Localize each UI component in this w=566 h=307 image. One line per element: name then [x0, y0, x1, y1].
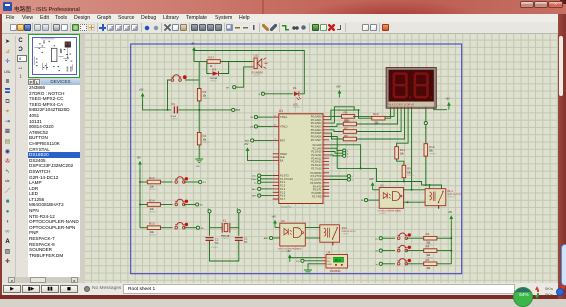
terminal P1.1	[251, 177, 261, 181]
LED D1	[293, 86, 301, 109]
resistor R7	[343, 126, 356, 133]
svg-text:R6: R6	[344, 134, 348, 138]
junction bus row2	[450, 250, 452, 252]
opto-coupler U2	[378, 183, 404, 215]
wire P1.0 terminal	[261, 175, 273, 177]
wire button right to R2 column	[185, 79, 199, 81]
wire R14 to button	[161, 204, 173, 206]
power +5V at switch bus left	[137, 157, 142, 169]
svg-text:R17: R17	[209, 55, 215, 59]
svg-text:LS1: LS1	[254, 54, 260, 58]
resistor R1	[197, 133, 210, 145]
svg-text:G2R-14-DC12: G2R-14-DC12	[447, 194, 462, 196]
button SW7	[397, 259, 411, 266]
svg-text:+5V: +5V	[369, 178, 374, 181]
svg-text:R14: R14	[149, 198, 155, 202]
terminal P1.4	[252, 187, 261, 191]
resistor R6	[343, 134, 356, 141]
junction bus R14	[139, 204, 141, 206]
svg-text:85.0: 85.0	[335, 258, 342, 262]
svg-text:P2.7/A15: P2.7/A15	[311, 167, 322, 170]
wire display common pin to +5V	[434, 108, 447, 110]
power +5V floating near U1 top	[336, 86, 341, 98]
terminal XTAL2	[250, 125, 257, 129]
resistor R3	[424, 232, 437, 247]
junction U2 lower	[407, 201, 409, 203]
wire bus to R14	[140, 204, 147, 206]
svg-text:AT89C52: AT89C52	[281, 205, 292, 209]
U1 left pin ALE pin 30	[273, 156, 285, 159]
svg-text:R15: R15	[149, 222, 155, 226]
svg-text:C9: C9	[171, 102, 175, 106]
power +5V at U2	[369, 178, 375, 190]
terminal key row2	[376, 249, 383, 253]
resistor R14	[147, 198, 160, 213]
wire U3 out bottom to RL2	[305, 237, 320, 239]
svg-text:DQ: DQ	[296, 261, 300, 263]
svg-text:+5V: +5V	[272, 216, 277, 219]
resistor R8	[342, 110, 355, 122]
svg-text:G2R-14-DC12: G2R-14-DC12	[342, 231, 357, 233]
wire R6 right to display pin e	[357, 108, 405, 139]
wire button to R3	[406, 237, 424, 239]
resistor R15	[147, 222, 160, 237]
svg-text:U3: U3	[281, 219, 285, 223]
wire R13 to button	[161, 181, 173, 183]
wire snake across to relay RL1	[337, 168, 421, 185]
junction RL1 rail	[428, 184, 430, 186]
wire crystal right column	[238, 213, 240, 236]
capacitor C2	[206, 238, 220, 249]
svg-text:P0.7/AD7: P0.7/AD7	[311, 139, 322, 142]
button SW4	[175, 223, 188, 230]
svg-text:DS18B20: DS18B20	[330, 270, 341, 273]
wire U1 P2.0 down column	[329, 145, 361, 169]
wire U1 P0.0 to R8	[329, 115, 343, 117]
U1 left pin XTAL2 pin 18	[273, 125, 288, 129]
wire U1 P0.6 down column	[329, 137, 337, 169]
wire caps bottom U link	[210, 241, 239, 261]
relay RL1 bottom pin stub	[438, 206, 440, 209]
wire R17 row down through to R2 top	[198, 62, 200, 89]
terminal node speaker return	[226, 86, 236, 90]
svg-text:10ms: 10ms	[251, 179, 257, 181]
button SW5	[397, 233, 411, 240]
ground at DS18B20	[304, 267, 312, 274]
wire P1.6 terminal	[261, 195, 273, 197]
terminal R15 out	[196, 226, 204, 230]
power +5V at U3	[272, 216, 277, 228]
U1 left pin RST pin 9	[273, 139, 286, 143]
wire row2 terminal to button	[382, 250, 395, 252]
wire R15 to button	[161, 227, 173, 229]
junction bus row1	[450, 237, 452, 239]
wire U4 GND to ground	[308, 264, 322, 267]
wire P1.4 terminal	[261, 188, 273, 190]
svg-text:R16: R16	[344, 119, 350, 123]
svg-text:<TEXT>: <TEXT>	[222, 237, 230, 240]
junction loops	[358, 109, 360, 111]
wire U1 P0.4 to R7	[329, 130, 343, 132]
U1 right pins P2.0-P2.7 pins 21-28	[311, 144, 329, 171]
svg-text:R7: R7	[344, 126, 348, 130]
svg-text:<TEXT>: <TEXT>	[171, 118, 179, 121]
svg-text:+5V: +5V	[139, 89, 144, 92]
wire button left down to RST row	[168, 80, 172, 110]
terminal P1.2	[254, 181, 261, 185]
wire C9 right to RST terminal	[178, 109, 231, 111]
U1 right pins P3.0-P3.7 pins 10-17	[310, 172, 329, 198]
svg-text:C1: C1	[244, 236, 248, 240]
wire AUD to U3	[273, 237, 280, 239]
svg-text:R4: R4	[426, 245, 430, 249]
sheet border	[131, 44, 462, 274]
terminal node c	[343, 154, 349, 158]
resistor R10	[372, 112, 385, 124]
svg-text:U2: U2	[380, 183, 384, 187]
button SW3	[175, 199, 188, 206]
svg-text:X1: X1	[223, 219, 227, 223]
U1 left pins P1.0-P1.7 pins 1-8	[273, 175, 294, 201]
terminal key row3	[376, 262, 383, 266]
svg-text:<TEXT>: <TEXT>	[149, 188, 157, 191]
svg-text:U1: U1	[279, 109, 283, 113]
junction bus R13	[139, 181, 141, 183]
svg-text:VCC: VCC	[327, 258, 332, 260]
svg-text:<TEXT>: <TEXT>	[331, 272, 339, 275]
resistor R5	[424, 258, 437, 270]
terminal key row1	[376, 237, 383, 241]
wire left switch bus	[139, 169, 141, 228]
relay RL2	[320, 225, 357, 242]
wire button to terminal R13	[184, 181, 199, 183]
svg-text:GND: GND	[196, 166, 201, 168]
svg-text:R11: R11	[400, 148, 406, 152]
svg-text:19: 19	[274, 115, 276, 117]
wire R17 row from +5V	[194, 61, 207, 63]
wire terminal to LED D1	[265, 93, 293, 95]
power +5V display common	[445, 98, 450, 110]
wire button to R4	[406, 250, 424, 252]
terminal P1.0	[252, 174, 261, 178]
wire R10 right to display pin a	[385, 108, 391, 118]
svg-text:<TEXT>: <TEXT>	[407, 174, 415, 177]
svg-text:<TEXT>: <TEXT>	[253, 74, 261, 77]
resistor R11	[395, 147, 406, 159]
wire U2 input	[368, 199, 380, 201]
svg-text:GND: GND	[327, 264, 332, 266]
wire +5V down to RST row	[143, 101, 172, 110]
junction U2 out / display g	[411, 189, 413, 191]
resistor R12	[424, 144, 437, 156]
sounder LS1	[252, 54, 268, 78]
svg-text:U4: U4	[327, 250, 331, 254]
svg-text:B A C D E F G DP +5: B A C D E F G DP +5	[389, 103, 414, 107]
resistor R4	[424, 245, 437, 260]
opto-coupler U3	[278, 219, 306, 253]
wire P1.1 terminal	[261, 178, 273, 180]
wire R1 bottom to ground	[198, 145, 200, 156]
wire U1 P3.1 to terminal	[329, 175, 347, 177]
terminal node t1	[347, 175, 352, 179]
resistor R17	[207, 55, 220, 68]
svg-text:AUD: AUD	[264, 237, 269, 240]
terminal node 2 below display	[424, 122, 427, 130]
svg-text:P1.7: P1.7	[280, 198, 286, 201]
power +5V at C9 branch	[139, 89, 145, 101]
svg-text:R9: R9	[407, 167, 411, 171]
junction snake columns	[360, 167, 362, 169]
svg-text:+5V: +5V	[336, 86, 341, 89]
U1 left pin PSEN pin 29	[273, 153, 287, 156]
wire U3 anode feed	[275, 227, 280, 229]
wire R7 right to display pin d	[357, 108, 402, 131]
wire crystal right pin	[230, 227, 239, 229]
wire crystal left pin	[210, 227, 223, 229]
wire terminal 2 to R12	[425, 125, 427, 144]
wire top loop to LED D1	[194, 51, 304, 94]
junction R9 snake	[403, 181, 405, 183]
wire crystal left column	[209, 213, 211, 236]
wire right switch bus	[450, 223, 452, 264]
7-segment display LED1	[386, 68, 436, 109]
wire +5V to U4 VCC	[290, 257, 322, 259]
wire D4 right up to R17 right, on to speaker	[220, 62, 252, 74]
wire U1 P0.5 to R6	[329, 133, 343, 139]
U1 left pin EA pin 31	[273, 160, 284, 163]
wire R4 to bus	[437, 250, 451, 252]
wire bus to R15	[140, 227, 147, 229]
svg-text:R10: R10	[373, 112, 379, 116]
wire R11 bottom to R9 top	[397, 159, 404, 166]
wire R9 bottom to snake net	[403, 178, 405, 182]
wire row3 terminal to button	[382, 263, 395, 265]
terminal node t2	[347, 178, 353, 182]
svg-text:+5V: +5V	[137, 157, 142, 160]
relay RL1	[425, 189, 462, 206]
terminal RST	[232, 108, 241, 112]
wire R5 to bus	[437, 263, 451, 265]
svg-text:RL1: RL1	[447, 189, 453, 193]
power +5V at DS18B20	[286, 250, 291, 262]
svg-text:+5V: +5V	[286, 250, 291, 253]
svg-text:<TEXT>: <TEXT>	[203, 97, 211, 100]
terminal R14 out	[196, 203, 204, 207]
resistor R16	[343, 119, 356, 126]
svg-text:+5V: +5V	[191, 43, 196, 46]
svg-text:DQ: DQ	[327, 261, 331, 263]
svg-text:<TEXT>: <TEXT>	[342, 233, 350, 236]
wire U2 out bottom to RL1	[404, 201, 426, 203]
wire display pin g long down to U2 net	[411, 108, 413, 190]
svg-text:<TEXT>: <TEXT>	[379, 212, 387, 215]
svg-text:R8: R8	[344, 110, 348, 114]
terminal crystal node 3	[237, 209, 241, 213]
wire U1 P3.2 to terminal	[329, 179, 347, 181]
capacitor C1	[235, 236, 248, 243]
terminal U2 input	[361, 199, 368, 203]
terminal node a	[343, 149, 349, 153]
resistor R13	[147, 176, 160, 191]
button SW2	[175, 177, 188, 184]
svg-text:R12: R12	[429, 145, 435, 149]
svg-text:SET: SET	[252, 196, 257, 198]
U1 left pin XTAL1 pin 19	[273, 115, 288, 119]
svg-text:9: 9	[275, 139, 276, 141]
svg-text:+5V: +5V	[448, 211, 453, 214]
button SW6	[397, 245, 411, 252]
wire button to terminal R15	[184, 227, 197, 229]
wire RL1 coil top rail	[422, 156, 442, 189]
wire loop A over R8 to R10	[329, 110, 371, 120]
wire XTAL2 terminal to U1	[258, 125, 273, 127]
wire display pin dp down to terminal 2	[425, 108, 427, 121]
svg-text:C2: C2	[215, 238, 219, 242]
svg-text:R2: R2	[203, 90, 207, 94]
svg-text:<TEXT>: <TEXT>	[447, 196, 455, 199]
wire XTAL1 terminal to U1	[258, 116, 273, 118]
wire P1.2 terminal	[261, 181, 273, 183]
capacitor C9	[171, 102, 179, 120]
svg-text:R3: R3	[426, 232, 430, 236]
resistor R2	[197, 89, 210, 101]
wire button to R5	[406, 263, 424, 265]
wire button to terminal R14	[184, 204, 196, 206]
terminal XTAL1	[250, 116, 257, 120]
svg-text:RST: RST	[236, 109, 241, 112]
terminal crystal node 2	[208, 209, 212, 213]
wire R3 to bus	[437, 237, 451, 239]
wire EA power to U1	[248, 155, 273, 160]
wire R16 right to display pin c	[357, 108, 398, 124]
wire loop B over R8	[329, 107, 358, 123]
wire bus to R13	[140, 181, 147, 183]
svg-text:<TEXT>: <TEXT>	[211, 246, 219, 249]
diode D4	[210, 67, 221, 82]
wire U1 P2.1 to terminal	[329, 148, 343, 150]
crystal X1	[221, 219, 230, 240]
power +5V switch-row bus	[448, 211, 453, 223]
svg-text:<TEXT>: <TEXT>	[149, 234, 157, 237]
power +5V top-left	[191, 43, 196, 55]
ground below R1	[195, 156, 203, 168]
wire display pin f down to R11	[397, 108, 409, 146]
svg-text:<TEXT>: <TEXT>	[210, 80, 218, 83]
button SW1 top-left	[171, 75, 187, 82]
wire sounder lower pin to terminal	[236, 67, 252, 87]
wire U1 P2.2 to terminal	[329, 152, 343, 154]
svg-text:LED: LED	[293, 104, 298, 107]
svg-text:D4: D4	[212, 67, 216, 71]
svg-text:XTAL2: XTAL2	[280, 126, 288, 129]
terminal AUD	[264, 236, 273, 240]
terminal P1.6	[252, 194, 261, 198]
resistor R9	[402, 165, 415, 177]
svg-text:9M6S4A: 9M6S4A	[221, 234, 230, 237]
svg-text:RST: RST	[280, 140, 285, 143]
svg-text:RL2: RL2	[342, 226, 348, 230]
terminal node b	[343, 152, 349, 156]
svg-text:D1: D1	[293, 86, 297, 90]
svg-text:<TEXT>: <TEXT>	[429, 152, 437, 155]
wire RST terminal to U1	[254, 139, 273, 141]
junction RST row / R2 column	[198, 109, 200, 111]
terminal LED feed	[259, 92, 265, 96]
wire R8 right to display pin b	[353, 108, 394, 116]
svg-text:+5V: +5V	[244, 143, 249, 146]
wire U1 P0.3 to R16	[329, 124, 343, 126]
svg-text:18: 18	[274, 125, 276, 127]
svg-text:R1: R1	[203, 134, 207, 138]
svg-text:<TEXT>: <TEXT>	[293, 106, 301, 109]
relay RL2 bottom pin stub	[332, 242, 334, 245]
svg-text:ADJ: ADJ	[252, 188, 256, 191]
svg-text:SOUNDER: SOUNDER	[252, 73, 264, 75]
svg-text:P3.7/RD: P3.7/RD	[312, 195, 322, 198]
wire U3 out top to RL2	[305, 227, 320, 229]
svg-text:<TEXT>: <TEXT>	[149, 211, 157, 214]
svg-text:EA: EA	[280, 160, 284, 163]
wire R2 bottom to R1 top	[198, 101, 200, 133]
wire U2 anode feed	[373, 189, 380, 191]
DS18B20 U4	[322, 250, 348, 275]
svg-text:R13: R13	[149, 176, 155, 180]
wire U1 P2.3 to terminal	[329, 154, 343, 157]
IC U1 AT89C52 microcontroller	[279, 109, 323, 209]
junction R12 rail	[425, 184, 427, 186]
terminal DQ	[296, 259, 304, 263]
svg-text:XTAL1: XTAL1	[280, 116, 288, 119]
svg-text:R5: R5	[426, 258, 430, 262]
wire row1 terminal to button	[382, 237, 395, 239]
svg-text:<TEXT>: <TEXT>	[203, 141, 211, 144]
junction RST row / button column	[167, 109, 169, 111]
wire R17 left to D4 left	[207, 62, 210, 74]
terminal R13 out	[199, 180, 207, 184]
wire U2 out top to RL1	[404, 189, 426, 191]
svg-text:OPTOCOUPLER-NAND: OPTOCOUPLER-NAND	[378, 210, 402, 213]
wire DQ to U4	[304, 260, 322, 262]
svg-text:+5V: +5V	[445, 98, 450, 101]
terminal RST to U1	[245, 139, 254, 143]
wire +5V stem to R17 row	[193, 51, 195, 62]
power +5V at EA pin	[244, 143, 249, 155]
U1 right pins P0.0-P0.7 pins 39-32	[311, 116, 329, 142]
